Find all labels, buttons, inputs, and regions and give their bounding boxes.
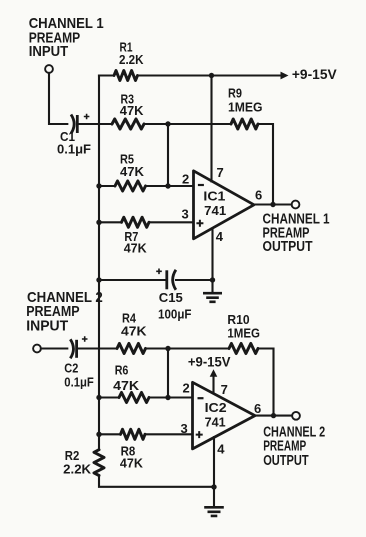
- svg-text:1MEG: 1MEG: [227, 326, 260, 341]
- label IC2: [205, 401, 227, 415]
- wire R2 bottom to ground node channel 2: [99, 476, 214, 487]
- label R2: [65, 448, 80, 463]
- node B junction (R4/R10 to pin 2): [165, 346, 170, 351]
- wire J1 down to C1: [49, 73, 67, 124]
- node pin2 junction IC2: [165, 395, 170, 400]
- svg-text:0.1μF: 0.1μF: [64, 375, 94, 390]
- svg-text:7: 7: [217, 165, 224, 180]
- wire pin 6 IC1 to output terminal: [254, 203, 292, 205]
- svg-text:47K: 47K: [120, 456, 144, 471]
- label IC2 value 741: [205, 415, 226, 429]
- pin 2 label IC2: [183, 381, 190, 396]
- label C15: [159, 290, 183, 305]
- label C1 value 0.1uF: [57, 141, 91, 156]
- svg-text:INPUT: INPUT: [26, 318, 68, 335]
- wire R7 row from bus to pin 3: [99, 221, 193, 223]
- svg-text:R6: R6: [115, 363, 129, 378]
- svg-text:OUTPUT: OUTPUT: [263, 453, 309, 469]
- ground symbol channel 1: [203, 293, 222, 302]
- resistor R2 (vertical in bus): [94, 450, 104, 476]
- svg-text:0.1μF: 0.1μF: [57, 141, 91, 156]
- capacitor C2 symbol: [70, 336, 87, 358]
- label R9: [228, 86, 242, 101]
- label IC1 value 741: [204, 204, 226, 218]
- IC1 inverting input minus sign: [198, 184, 204, 186]
- capacitor C1 symbol: [71, 114, 89, 134]
- label R3: [121, 91, 135, 106]
- node pin2 junction: [165, 183, 170, 188]
- svg-text:47K: 47K: [120, 103, 144, 118]
- wire pin 6 IC2 to output terminal: [255, 415, 293, 417]
- label R1: [120, 39, 133, 54]
- IC1 non-inverting input plus sign: [196, 220, 203, 227]
- wire node B down to pin 2 node: [167, 349, 169, 398]
- wire C2 to R4: [78, 347, 117, 349]
- output node junction channel 2: [271, 413, 276, 418]
- resistor R9: [231, 119, 258, 129]
- label R6 value 47K: [113, 378, 140, 393]
- wire R5 row from bus to pin 2: [99, 185, 193, 187]
- bus junction at R5: [96, 183, 101, 188]
- label R4 value 47K: [121, 324, 147, 339]
- label R1 value 2.2K: [119, 52, 144, 67]
- svg-text:3: 3: [182, 207, 189, 222]
- pin 7 label IC2: [221, 382, 228, 397]
- label C2 value 0.1uF: [64, 375, 94, 390]
- resistor R6: [119, 393, 149, 403]
- svg-text:4: 4: [217, 441, 225, 456]
- svg-text:2.2K: 2.2K: [63, 462, 92, 477]
- output node junction channel 1: [270, 202, 275, 207]
- svg-text:2.2K: 2.2K: [119, 52, 144, 67]
- label +9-15V rail channel 1: [292, 66, 337, 82]
- svg-text:47K: 47K: [120, 164, 145, 179]
- label CHANNEL 2 PREAMP INPUT: [26, 289, 103, 335]
- resistor R4: [117, 344, 146, 354]
- wire R10 to output node: [258, 349, 274, 416]
- op-amp IC2 triangle: [193, 382, 256, 449]
- svg-text:4: 4: [216, 229, 224, 244]
- label +9-15V rail channel 2: [188, 353, 231, 369]
- wire pin 7 IC1 from supply node: [210, 76, 212, 182]
- svg-text:IC1: IC1: [203, 189, 225, 203]
- ground node junction channel 1: [210, 277, 215, 282]
- resistor R3: [112, 119, 144, 129]
- wire pin 4 IC2 to ground node: [213, 437, 215, 506]
- resistor R7: [122, 217, 150, 227]
- wire R1 left lead from bus: [99, 74, 114, 76]
- svg-text:C2: C2: [64, 361, 78, 376]
- terminal J1 channel 1 input: [45, 65, 53, 73]
- pin 7 label IC1: [217, 165, 224, 180]
- svg-text:7: 7: [221, 382, 228, 397]
- node A junction (R3/R9 to pin 2): [165, 121, 170, 126]
- svg-text:+9-15V: +9-15V: [188, 353, 231, 369]
- wire R4 to node B and on to R10: [146, 347, 230, 349]
- label R2 value 2.2K: [63, 462, 92, 477]
- bus junction at R8: [96, 432, 101, 437]
- label C1: [60, 129, 75, 144]
- pin 6 label IC1: [255, 188, 262, 203]
- svg-text:IC2: IC2: [205, 401, 227, 415]
- pin 2 label IC1: [182, 171, 189, 186]
- svg-text:741: 741: [204, 204, 226, 218]
- label R7: [124, 229, 138, 244]
- label R3 value 47K: [120, 103, 144, 118]
- terminal J4 channel 2 output: [292, 412, 300, 420]
- pin 3 label IC2: [181, 421, 188, 436]
- ground symbol channel 2: [204, 507, 224, 516]
- resistor R5: [115, 181, 146, 191]
- label CHANNEL 1 PREAMP OUTPUT: [263, 212, 330, 255]
- label CHANNEL 2 PREAMP OUTPUT: [263, 424, 325, 469]
- label C15 value 100uF: [158, 307, 192, 322]
- bus junction at C15: [96, 277, 101, 282]
- terminal J3 channel 2 input: [33, 345, 41, 353]
- IC2 inverting input minus sign: [198, 397, 204, 399]
- label CHANNEL 1 PREAMP INPUT: [29, 15, 104, 60]
- wire node A down to pin 2 node: [167, 124, 169, 186]
- wire R6 row from bus to pin 2 IC2: [99, 396, 192, 398]
- wire C15 to ground node: [176, 279, 213, 281]
- label R10 value 1MEG: [227, 326, 260, 341]
- svg-text:6: 6: [254, 401, 261, 416]
- bus junction at R6: [96, 395, 101, 400]
- svg-text:47K: 47K: [121, 324, 147, 339]
- label R5 value 47K: [120, 164, 145, 179]
- label R9 value 1MEG: [228, 100, 263, 115]
- wire R3 to node A and on to R9: [144, 123, 231, 125]
- bias bus vertical wire: [98, 76, 100, 450]
- svg-text:3: 3: [181, 421, 188, 436]
- svg-text:2: 2: [183, 381, 190, 396]
- svg-text:+9-15V: +9-15V: [292, 66, 337, 82]
- svg-text:R9: R9: [228, 86, 242, 101]
- svg-text:2: 2: [182, 171, 189, 186]
- label R8 value 47K: [120, 456, 144, 471]
- label R5: [120, 152, 134, 167]
- wire R8 row from bus to pin 3 IC2: [99, 433, 192, 435]
- pin 6 label IC2: [254, 401, 261, 416]
- wire R1 to supply node: [138, 74, 212, 76]
- label C2: [64, 361, 78, 376]
- label R10: [227, 312, 249, 327]
- pin 4 label IC2: [217, 441, 225, 456]
- supply node junction (+V rail / pin 7): [209, 73, 214, 78]
- svg-text:1MEG: 1MEG: [228, 100, 263, 115]
- wire bus to C15: [99, 279, 165, 281]
- ground node junction channel 2: [211, 484, 216, 489]
- svg-text:6: 6: [255, 188, 262, 203]
- pin 4 label IC1: [216, 229, 224, 244]
- IC2 non-inverting input plus sign: [196, 431, 203, 438]
- wire J3 to C2: [41, 347, 67, 349]
- svg-text:47K: 47K: [113, 378, 140, 393]
- svg-text:C15: C15: [159, 290, 183, 305]
- wire R9 to output node: [258, 124, 273, 205]
- wire pin 4 IC1 to ground node: [211, 228, 213, 292]
- label R6: [115, 363, 129, 378]
- capacitor C15 symbol: [156, 269, 176, 290]
- svg-text:INPUT: INPUT: [29, 43, 68, 60]
- bus junction at R7: [96, 220, 101, 225]
- svg-text:741: 741: [205, 415, 226, 429]
- resistor R8: [121, 429, 146, 439]
- pin 3 label IC1: [182, 207, 189, 222]
- wire supply rail with arrow: [212, 72, 289, 80]
- svg-text:100μF: 100μF: [158, 307, 192, 322]
- terminal J2 channel 1 output: [292, 201, 300, 209]
- label R7 value 47K: [124, 241, 148, 256]
- label R8: [121, 443, 136, 458]
- svg-text:47K: 47K: [124, 241, 148, 256]
- label IC1: [203, 189, 225, 203]
- resistor R10: [229, 344, 258, 354]
- resistor R1: [114, 71, 138, 81]
- label R4: [122, 311, 137, 326]
- op-amp IC1 triangle: [194, 171, 255, 239]
- svg-text:OUTPUT: OUTPUT: [263, 239, 313, 255]
- wire C1 to R3: [79, 123, 112, 125]
- wire pin 7 IC2 supply arrow: [210, 369, 218, 393]
